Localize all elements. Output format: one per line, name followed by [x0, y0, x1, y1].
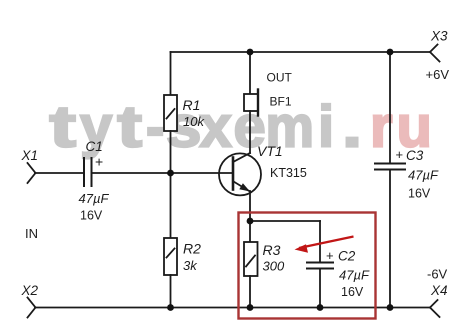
- svg-text:-: -: [146, 94, 164, 159]
- resistor R2: [164, 238, 177, 275]
- wire bottom rail: [35, 307, 430, 309]
- svg-text:+: +: [396, 147, 404, 162]
- node bottom rail C2: [317, 304, 324, 311]
- svg-text:OUT: OUT: [267, 71, 293, 85]
- svg-text:VT1: VT1: [257, 143, 283, 159]
- wire R3 bottom: [249, 276, 251, 308]
- svg-text:47µF: 47µF: [339, 268, 370, 283]
- capacitor C1: [84, 158, 92, 186]
- wire emitter to C2 branch: [250, 220, 320, 222]
- resistor R1: [164, 95, 177, 131]
- svg-text:C2: C2: [338, 248, 356, 263]
- wire C3 top: [389, 52, 391, 163]
- svg-text:X2: X2: [21, 283, 39, 298]
- wire R2 bottom: [170, 275, 172, 308]
- svg-text:300: 300: [263, 259, 285, 274]
- svg-text:KT315: KT315: [270, 166, 307, 180]
- svg-text:16V: 16V: [341, 285, 364, 299]
- svg-text:t: t: [117, 95, 142, 159]
- svg-text:IN: IN: [25, 226, 38, 241]
- terminal X1: [28, 163, 84, 183]
- wire C3 bottom: [389, 170, 391, 308]
- svg-text:x: x: [200, 95, 232, 160]
- terminal X3: [430, 45, 440, 62]
- svg-text:3k: 3k: [183, 258, 198, 273]
- node bottom rail C3: [387, 304, 394, 311]
- node top rail BF1: [247, 49, 254, 56]
- annotation arrow (red): [295, 237, 354, 253]
- watermark tyt-sxemi.ru: [49, 94, 432, 160]
- wire emitter: [249, 191, 251, 221]
- svg-text:.: .: [342, 94, 362, 158]
- svg-text:C1: C1: [86, 139, 103, 154]
- svg-text:i: i: [318, 95, 334, 160]
- svg-text:47µF: 47µF: [408, 168, 439, 183]
- wire BF1 to collector: [249, 111, 251, 153]
- sounder BF1: [244, 90, 258, 116]
- svg-text:47µF: 47µF: [79, 191, 110, 206]
- svg-text:X1: X1: [21, 148, 39, 163]
- wire R2 top: [170, 173, 172, 238]
- svg-text:t: t: [49, 94, 76, 159]
- wire R3 top: [249, 221, 251, 242]
- resistor R3: [244, 242, 258, 276]
- svg-text:+: +: [95, 154, 103, 170]
- terminal X2: [28, 298, 36, 318]
- svg-text:X3: X3: [430, 29, 448, 44]
- wire R1 top: [170, 52, 172, 95]
- svg-text:16V: 16V: [80, 209, 103, 223]
- wire top rail: [171, 51, 431, 53]
- capacitor C3: [375, 164, 405, 170]
- wire BF1 top: [249, 52, 251, 94]
- svg-text:R1: R1: [183, 97, 201, 113]
- svg-text:16V: 16V: [408, 187, 431, 201]
- svg-text:R2: R2: [183, 241, 201, 257]
- wire C2 top: [319, 221, 321, 261]
- wire R1 bottom: [170, 131, 172, 173]
- svg-text:10k: 10k: [183, 114, 205, 129]
- svg-text:R3: R3: [263, 242, 281, 258]
- node bottom rail R3: [247, 304, 254, 311]
- svg-text:C3: C3: [406, 148, 424, 163]
- node top rail C3: [387, 49, 394, 56]
- node base junction: [167, 170, 174, 177]
- terminal X4: [430, 300, 440, 317]
- svg-text:-6V: -6V: [427, 267, 448, 282]
- transistor VT1: [219, 153, 261, 195]
- capacitor C2: [307, 263, 333, 269]
- node bottom rail R2: [167, 304, 174, 311]
- svg-text:+: +: [326, 248, 334, 263]
- svg-text:X4: X4: [430, 283, 448, 298]
- svg-text:+6V: +6V: [426, 67, 450, 82]
- node emitter junction: [247, 218, 254, 225]
- svg-text:BF1: BF1: [270, 95, 292, 109]
- highlight box (red): [239, 213, 376, 319]
- wire C2 bottom: [319, 269, 321, 308]
- wire base rail: [92, 172, 234, 174]
